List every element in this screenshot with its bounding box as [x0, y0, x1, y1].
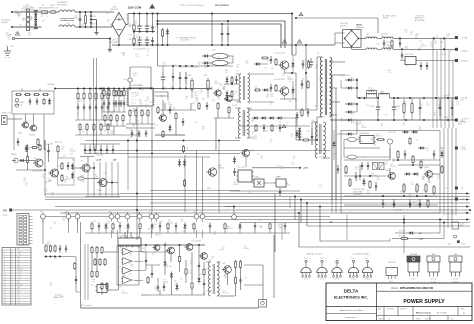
diode D10a — [402, 131, 404, 133]
component under bus 12 — [193, 223, 195, 224]
svg-text:0.1u: 0.1u — [252, 138, 255, 140]
svg-text:2.2k: 2.2k — [291, 164, 294, 166]
svg-text:100k: 100k — [154, 289, 158, 291]
svg-text:C48: C48 — [134, 21, 137, 23]
wire drop — [111, 230, 113, 238]
svg-text:C39: C39 — [416, 201, 419, 203]
svg-text:R58: R58 — [404, 30, 407, 32]
svg-text:R70: R70 — [246, 61, 249, 63]
svg-text:24: 24 — [12, 284, 14, 286]
wire — [112, 230, 114, 233]
component under bus 16 — [254, 223, 256, 226]
resistor R9b3 — [122, 114, 124, 116]
svg-text:-12V: -12V — [17, 279, 20, 281]
diode D7 — [254, 63, 256, 65]
capacitor C70 — [172, 73, 174, 76]
svg-text:7905: 7905 — [454, 254, 458, 256]
svg-text:R10: R10 — [431, 46, 434, 48]
diode D10b — [411, 131, 413, 133]
svg-text:223: 223 — [434, 43, 437, 45]
comparator bus — [118, 245, 120, 290]
capacitor C10f — [375, 182, 377, 186]
svg-text:R29: R29 — [30, 18, 33, 20]
capacitor C104 — [399, 40, 401, 43]
svg-text:472: 472 — [123, 55, 126, 57]
resistor R9b2 — [116, 114, 118, 116]
svg-text:R98: R98 — [355, 167, 358, 169]
svg-text:2SB-12HF: 2SB-12HF — [388, 262, 395, 264]
svg-text:GND: GND — [194, 212, 197, 214]
transistor Q2 switch — [280, 87, 288, 95]
diode D102 pair — [345, 87, 348, 89]
svg-text:27: 27 — [12, 292, 14, 294]
wire — [83, 111, 85, 120]
svg-text:MTZJ5.1: MTZJ5.1 — [227, 228, 233, 230]
svg-text:100k: 100k — [45, 246, 49, 248]
svg-text:16: 16 — [4, 290, 6, 292]
aux connector J2 — [2, 116, 8, 125]
svg-text:-5V/White: -5V/White — [461, 59, 468, 62]
svg-text:Q12 2SC945: Q12 2SC945 — [191, 241, 201, 243]
wire — [42, 219, 44, 244]
svg-text:4.7k: 4.7k — [320, 89, 323, 91]
resistor R4 — [162, 28, 164, 30]
svg-text:1n: 1n — [99, 125, 101, 127]
svg-text:C19: C19 — [63, 155, 66, 157]
resistor R73 — [94, 258, 96, 260]
svg-text:PIN: PIN — [17, 249, 20, 251]
svg-text:223: 223 — [204, 67, 207, 69]
diode D8 — [262, 89, 264, 91]
bus wire 3 — [45, 199, 470, 201]
svg-text:4.7k: 4.7k — [217, 99, 220, 101]
warning triangle — [15, 32, 19, 36]
resistor R90 — [103, 89, 105, 91]
svg-text:R43: R43 — [377, 44, 380, 46]
capacitor C90 — [234, 168, 236, 171]
svg-text:472: 472 — [282, 75, 285, 77]
svg-text:56k: 56k — [349, 183, 352, 185]
wire vertical — [447, 128, 449, 215]
resistor R83 — [275, 84, 277, 86]
wire vertical — [87, 162, 89, 196]
wire B+ riser — [126, 24, 128, 26]
svg-text:102: 102 — [163, 65, 166, 67]
svg-text:18: 18 — [12, 269, 14, 271]
svg-text:C9: C9 — [436, 35, 438, 37]
junction pad — [154, 214, 159, 219]
wire — [211, 89, 213, 91]
svg-text:1.2k: 1.2k — [47, 244, 50, 246]
svg-text:R73: R73 — [449, 51, 452, 53]
resistor R1 bleeder — [85, 14, 87, 16]
svg-text:C30?: C30? — [212, 50, 216, 52]
svg-text:20: 20 — [4, 300, 6, 302]
svg-text:102: 102 — [260, 158, 263, 160]
wire — [344, 147, 380, 149]
svg-text:R4: R4 — [129, 39, 131, 41]
svg-text:C5: C5 — [331, 199, 333, 201]
svg-text:C108: C108 — [396, 106, 400, 108]
svg-text:1N4148: 1N4148 — [163, 282, 169, 284]
svg-text:10u: 10u — [94, 100, 97, 102]
svg-text:1.2k: 1.2k — [44, 191, 47, 193]
svg-text:C82: C82 — [224, 275, 227, 277]
svg-text:223: 223 — [403, 187, 406, 189]
svg-text:4.7k: 4.7k — [280, 168, 283, 170]
svg-text:C6: C6 — [385, 162, 387, 164]
resistor R10i — [420, 160, 422, 162]
svg-text:DELTA: DELTA — [344, 288, 359, 293]
svg-text:R75: R75 — [21, 8, 24, 10]
warning triangle mid — [282, 125, 286, 128]
transistor Q10a — [389, 173, 396, 180]
svg-text:-5V: -5V — [200, 212, 202, 214]
module box SB — [58, 158, 75, 185]
resistor R86 — [255, 124, 257, 126]
wire cascade step5 — [298, 213, 300, 247]
capacitor C552 — [94, 146, 96, 149]
wire — [295, 118, 297, 140]
svg-text:C45: C45 — [116, 39, 119, 41]
svg-text:R7B: R7B — [188, 75, 191, 77]
capacitor C66 Y-cap upper — [90, 12, 92, 15]
svg-text:T-B-F: T-B-F — [320, 257, 324, 259]
wire — [101, 111, 103, 120]
aux choke L102 — [366, 37, 369, 38]
svg-text:C71: C71 — [376, 177, 379, 179]
svg-text:9 10 11: 9 10 11 — [131, 103, 136, 105]
capacitor C22b — [26, 145, 28, 148]
capacitor C65 X-cap — [79, 12, 81, 19]
svg-text:PTTV05: PTTV05 — [206, 291, 212, 293]
svg-text:C50: C50 — [238, 99, 241, 101]
svg-text:C61: C61 — [434, 41, 437, 43]
svg-text:472: 472 — [133, 110, 136, 112]
svg-text:C94: C94 — [349, 181, 352, 183]
wire drop — [127, 230, 129, 238]
transistor Q7 — [160, 115, 167, 122]
svg-text:MTZJ5.1: MTZJ5.1 — [421, 46, 427, 48]
svg-text:47u: 47u — [418, 50, 421, 52]
AC line input terminal L — [11, 11, 13, 13]
svg-text:+12V/6A: +12V/6A — [461, 36, 468, 39]
svg-text:MTZJ5.1: MTZJ5.1 — [222, 293, 228, 295]
wire — [392, 159, 440, 161]
resistor R64 — [157, 106, 159, 108]
wire vertical feeder — [452, 61, 454, 129]
svg-text:10k: 10k — [380, 126, 383, 128]
svg-text:+5V: +5V — [17, 259, 20, 261]
capacitor C33 — [95, 104, 97, 107]
svg-text:C68: C68 — [301, 79, 304, 81]
svg-text:R74: R74 — [195, 122, 198, 124]
wire — [145, 252, 147, 257]
wire — [254, 230, 256, 233]
junction pad — [125, 214, 130, 219]
resistor R52 — [61, 162, 63, 164]
resistor R60 — [129, 109, 131, 111]
svg-text:R79: R79 — [90, 90, 93, 92]
resistor R61 — [135, 109, 137, 111]
svg-text:+5V Ref: +5V Ref — [47, 84, 55, 86]
svg-text:Q7: Q7 — [156, 125, 158, 127]
svg-text:0.1u: 0.1u — [154, 226, 157, 228]
svg-text:102: 102 — [305, 62, 308, 64]
svg-text:GND: GND — [137, 212, 140, 214]
svg-text:R96: R96 — [106, 106, 109, 108]
wire — [159, 230, 161, 233]
pwm IC U1 TL494 — [128, 88, 153, 106]
svg-text:C74: C74 — [278, 121, 281, 123]
svg-text:C65: C65 — [269, 89, 272, 91]
svg-text:R90: R90 — [194, 92, 197, 94]
component under bus 4 — [119, 223, 121, 226]
capacitor C7b — [152, 37, 154, 40]
svg-text:C7: C7 — [403, 185, 405, 187]
left vertical boundary — [80, 222, 82, 308]
resistor R80a — [261, 57, 263, 59]
package 2SA673AC — [301, 267, 311, 272]
svg-text:+3.3V: +3.3V — [17, 277, 21, 279]
svg-text:C64: C64 — [280, 166, 283, 168]
bus wire 8 — [205, 219, 470, 221]
svg-text:C72: C72 — [147, 49, 150, 51]
package 2SC4584C — [362, 267, 372, 272]
wire — [185, 260, 187, 267]
svg-text:E-p-c: E-p-c — [351, 257, 355, 259]
transistor Q50 — [82, 164, 90, 172]
diode D71 — [164, 260, 166, 262]
svg-text:14: 14 — [4, 284, 6, 286]
resistor R10w — [409, 137, 411, 139]
svg-text:R33: R33 — [110, 131, 113, 133]
component under bus 7 — [151, 223, 153, 225]
svg-text:R40: R40 — [426, 148, 429, 150]
wire — [91, 230, 93, 233]
svg-text:10k: 10k — [319, 186, 322, 188]
svg-text:C63: C63 — [433, 113, 436, 115]
svg-text:10k: 10k — [139, 101, 142, 103]
svg-text:0.1u: 0.1u — [404, 104, 407, 106]
+3.3V terminal — [455, 147, 457, 149]
capacitor C71 — [206, 102, 208, 105]
svg-text:10u: 10u — [101, 156, 104, 158]
relay K1 — [373, 163, 378, 170]
svg-text:R93: R93 — [28, 32, 31, 34]
wire vertical — [111, 162, 113, 196]
svg-text:R10: R10 — [293, 156, 296, 158]
svg-text:monitor.net.ru: monitor.net.ru — [345, 316, 357, 319]
svg-text:R61: R61 — [215, 81, 218, 83]
resistor R82 — [275, 58, 277, 60]
wire vertical — [443, 128, 445, 215]
svg-text:C21: C21 — [319, 78, 322, 80]
resistor R74 — [198, 102, 200, 104]
svg-text:R24: R24 — [129, 137, 132, 139]
svg-text:Reverse Circuit: Reverse Circuit — [416, 312, 431, 315]
svg-text:+5V: +5V — [113, 160, 117, 162]
bus wire 4 — [150, 202, 470, 204]
resistor R22 — [33, 94, 34, 96]
capacitor C5 bulk — [139, 23, 141, 27]
capacitor C10d — [409, 199, 411, 203]
svg-text:R36: R36 — [202, 98, 205, 100]
svg-text:1n: 1n — [270, 141, 272, 143]
wire — [85, 153, 240, 155]
svg-text:27k: 27k — [186, 148, 189, 150]
wire — [112, 11, 114, 13]
svg-text:56k: 56k — [28, 34, 31, 36]
current transformer T5b — [315, 122, 317, 127]
svg-text:U10A KIA358: U10A KIA358 — [359, 132, 369, 135]
wire vertical x202 — [202, 157, 204, 212]
wire PG rail — [418, 60, 456, 62]
svg-text:1.2k: 1.2k — [48, 181, 51, 183]
wire vertical x137 — [136, 107, 138, 240]
capacitor C10c — [382, 199, 384, 203]
svg-text:R50: R50 — [389, 46, 392, 48]
resistor R43 — [100, 123, 102, 125]
svg-text:C79: C79 — [361, 125, 364, 127]
svg-text:C84: C84 — [352, 103, 355, 105]
wire — [196, 74, 216, 76]
svg-text:Q14: Q14 — [222, 263, 225, 265]
AC line input terminal N — [11, 26, 13, 28]
svg-text:R40: R40 — [441, 42, 444, 44]
svg-text:102: 102 — [25, 25, 28, 27]
resistor R10a — [403, 183, 405, 185]
svg-text:R93: R93 — [209, 62, 212, 64]
diode D50 — [19, 160, 20, 162]
wire — [44, 140, 46, 196]
svg-text:PS ON: PS ON — [17, 284, 22, 286]
svg-text:1n: 1n — [446, 37, 448, 39]
svg-text:R29: R29 — [154, 287, 157, 289]
wire T1 primary top — [317, 56, 323, 58]
svg-text:C98: C98 — [41, 14, 44, 16]
svg-text:220: 220 — [202, 129, 205, 131]
svg-text:100: 100 — [369, 93, 372, 95]
resistor R84b — [308, 60, 310, 62]
wire — [30, 26, 33, 28]
wire — [344, 204, 438, 206]
svg-text:R14: R14 — [264, 68, 267, 70]
transistor Q4 — [226, 95, 232, 101]
transistor Q80 — [208, 168, 216, 176]
resistor R24 — [43, 98, 45, 99]
supervisor box — [341, 131, 440, 214]
svg-text:2.2k: 2.2k — [62, 220, 65, 222]
capacitor C5W — [48, 147, 50, 150]
svg-text:C39: C39 — [123, 274, 126, 276]
svg-text:R72: R72 — [103, 173, 106, 175]
svg-text:C94: C94 — [58, 166, 61, 168]
wire centre tap — [134, 31, 155, 33]
svg-text:R24: R24 — [206, 269, 209, 271]
capacitor C82b — [302, 60, 304, 64]
output choke L101 — [379, 93, 382, 94]
svg-text:1k: 1k — [212, 259, 214, 261]
comparator U8c — [123, 267, 132, 274]
svg-text:COIL (NPT): COIL (NPT) — [180, 40, 190, 42]
capacitor C10e2 — [162, 72, 164, 77]
svg-text:4.7k: 4.7k — [227, 58, 230, 60]
svg-text:GND: GND — [66, 212, 69, 214]
svg-text:C67: C67 — [109, 24, 112, 26]
svg-text:R11: R11 — [331, 61, 334, 63]
svg-text:DPS-220PB-00: DPS-220PB-00 — [215, 5, 230, 7]
svg-text:C04+/C904: C04+/C904 — [340, 23, 348, 25]
wire -12 rail b — [393, 48, 456, 50]
diode D21 — [169, 124, 171, 126]
diode D22 — [226, 76, 228, 79]
svg-text:C69: C69 — [234, 90, 237, 92]
svg-text:C34: C34 — [107, 221, 110, 223]
wire +12 rail — [359, 37, 367, 39]
wire vertical x306 — [305, 45, 307, 110]
svg-text:R60: R60 — [371, 173, 374, 175]
svg-text:+C2W: +C2W — [460, 224, 465, 226]
svg-text:R67: R67 — [351, 77, 354, 79]
wire — [235, 269, 237, 276]
capacitor C6 bulk — [139, 37, 141, 41]
svg-text:+12V: +12V — [17, 274, 21, 276]
resistor R79 — [240, 260, 242, 262]
resistor R93 — [118, 89, 120, 91]
svg-text:R56: R56 — [5, 33, 8, 35]
svg-text:POWER SUPPLY: POWER SUPPLY — [403, 299, 445, 305]
diode D73 — [198, 276, 200, 278]
svg-text:R27: R27 — [315, 65, 318, 67]
svg-text:C40: C40 — [152, 252, 155, 254]
wire — [102, 111, 126, 113]
wire cascade step2 — [300, 200, 302, 223]
svg-text:VR1: VR1 — [124, 79, 127, 81]
svg-text:100: 100 — [107, 223, 110, 225]
resistor R60 — [45, 245, 47, 247]
resistor R25b — [39, 144, 41, 145]
svg-text:1N4148: 1N4148 — [122, 293, 128, 295]
svg-text:REV.A: REV.A — [383, 17, 389, 20]
svg-text:472: 472 — [136, 95, 139, 97]
capacitor C105 — [401, 52, 403, 55]
resistor R10h — [412, 155, 414, 157]
svg-text:C9: C9 — [46, 17, 48, 19]
diode D106 — [345, 133, 348, 135]
svg-text:C49: C49 — [144, 247, 147, 249]
wire — [163, 65, 233, 67]
svg-text:C67: C67 — [93, 24, 96, 26]
svg-text:T2: T2 — [236, 71, 238, 73]
svg-text:R92: R92 — [367, 191, 370, 193]
resistor R33 — [95, 92, 97, 94]
fuse L50 — [78, 177, 84, 180]
bus end dots — [466, 192, 468, 194]
junction pad — [149, 214, 154, 219]
wire — [432, 173, 440, 175]
capacitor C50 — [25, 145, 27, 148]
capacitor C10i — [393, 199, 395, 203]
wire — [30, 11, 33, 13]
svg-text:1: 1 — [380, 313, 381, 315]
wire — [170, 254, 172, 262]
svg-text:R65: R65 — [174, 280, 177, 282]
svg-text:C24: C24 — [446, 35, 449, 37]
resistor R9b1 — [110, 114, 112, 116]
resistor R92 — [113, 89, 115, 91]
component under bus 1 — [98, 223, 100, 226]
